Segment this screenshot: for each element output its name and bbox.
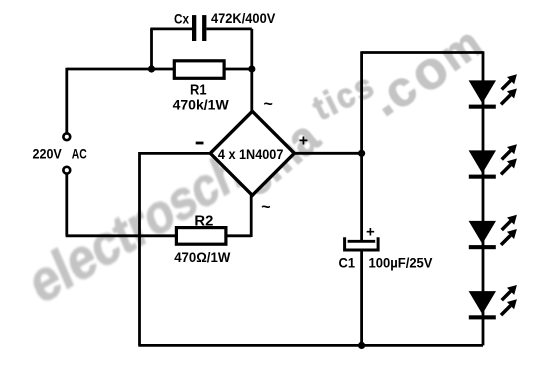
bridge rectifier 4 x 1N4007 (diamond): [210, 111, 294, 195]
wire: output column vertical (top rail corner down to C1 top plate): [360, 51, 363, 240]
wire: left vertical from top rail to upper AC terminal: [65, 68, 68, 133]
svg-text:~: ~: [261, 199, 270, 216]
watermark ema: [247, 133, 312, 188]
wire: LED column vertical: [482, 51, 485, 345]
svg-text:~: ~: [264, 96, 273, 113]
junction: C1 / bottom rail: [358, 342, 365, 349]
watermark .com: [374, 95, 386, 103]
junction: Cx-right / R1 rail: [248, 65, 255, 72]
wire: top rail to LED column: [362, 51, 483, 54]
svg-text:AC: AC: [72, 146, 87, 162]
wire: bottom-left horizontal from AC column to R2 then to bridge-bottom column: [66, 234, 252, 237]
wire: top-left rail from AC corner to bridge-top column: [67, 68, 252, 71]
svg-text:C1: C1: [339, 255, 356, 271]
wire: Cx right horizontal lead: [207, 27, 252, 30]
watermark electroschematics: [33, 167, 239, 288]
svg-text:100µF/25V: 100µF/25V: [369, 255, 434, 271]
svg-text:470Ω/1W: 470Ω/1W: [174, 249, 231, 265]
LED D4: [469, 285, 517, 319]
svg-text:+: +: [366, 224, 375, 241]
svg-text:472K/400V: 472K/400V: [211, 10, 276, 26]
junction: bridge positive node: [358, 150, 365, 157]
svg-text:Cx: Cx: [174, 11, 189, 27]
wire: bottom rail: [138, 344, 483, 347]
svg-text:+: +: [299, 133, 308, 150]
LED D2: [469, 144, 517, 178]
svg-text:4 x 1N4007: 4 x 1N4007: [218, 146, 284, 162]
wire: right vertical from Cx lead down through R1 rail to bridge top vertex: [250, 29, 253, 113]
junction: Cx-left / R1 rail: [148, 65, 155, 72]
wire: vertical from R2 row up to bridge bottom vertex: [250, 194, 253, 237]
resistor R1: [174, 61, 224, 79]
LED D1: [469, 74, 517, 108]
LED D3: [469, 215, 517, 249]
wire: bridge positive lead to output column: [294, 152, 361, 155]
resistor R2: [176, 228, 226, 245]
wire: C1 bottom lead to bottom rail: [360, 252, 363, 346]
capacitor C1 top plate: [348, 240, 376, 243]
wire: Cx left horizontal lead: [150, 27, 192, 30]
watermark tics: [315, 82, 373, 110]
capacitor C1 cup (negative plate): [345, 237, 379, 250]
svg-text:220V: 220V: [33, 146, 63, 162]
svg-text:R2: R2: [194, 212, 213, 229]
wire: left vertical from lower AC terminal down to R2 row: [65, 174, 68, 235]
terminal: lower 220V AC terminal: [63, 167, 70, 174]
capacitor Cx plates: [192, 15, 196, 41]
wire: bridge negative lead going left then down to bottom rail: [140, 153, 211, 345]
wire: Cx left vertical riser: [150, 29, 153, 69]
label: - (bridge negative): [196, 142, 204, 145]
svg-text:470k/1W: 470k/1W: [173, 97, 230, 113]
terminal: upper 220V AC terminal: [63, 133, 70, 140]
